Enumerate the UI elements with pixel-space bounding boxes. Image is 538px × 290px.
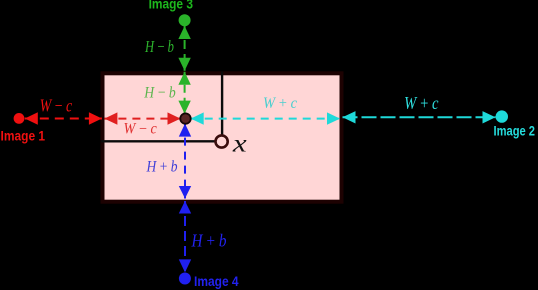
image 3 dot (green) bbox=[179, 14, 191, 26]
image 4 dot (blue) bbox=[179, 273, 191, 285]
arrow blue outer H+b (bottom edge to image 4 dot) bbox=[179, 201, 191, 272]
plate (pink rectangle with dark border) bbox=[103, 73, 342, 201]
svg-text:Image 1: Image 1 bbox=[1, 129, 46, 144]
svg-text:W + c: W + c bbox=[404, 93, 438, 113]
charge dot (center, dark maroon) bbox=[180, 113, 190, 123]
arrow green outer H-b (image 3 dot to top edge) bbox=[178, 26, 190, 71]
coordinate line vertical (from top edge down to point x) bbox=[221, 72, 223, 137]
observation point x (open circle) bbox=[216, 135, 228, 147]
arrow cyan inner W+c (charge to right edge) bbox=[191, 112, 340, 124]
svg-text:H − b: H − b bbox=[143, 85, 175, 102]
image 1 dot (red) bbox=[14, 113, 25, 124]
svg-text:Image 2: Image 2 bbox=[494, 123, 536, 138]
arrow red outer W-c (image 1 dot to left edge) bbox=[25, 112, 102, 124]
arrow blue inner H+b (charge to bottom edge) bbox=[179, 124, 191, 199]
svg-text:H − b: H − b bbox=[144, 37, 174, 56]
coordinate line horizontal (from left edge right to point x) bbox=[101, 140, 216, 142]
arrow cyan outer W+c (right edge to image 2 dot) bbox=[343, 111, 496, 123]
svg-text:Image 3: Image 3 bbox=[149, 0, 194, 12]
arrow red inner W-c (left edge to charge) bbox=[104, 112, 180, 124]
svg-text:W − c: W − c bbox=[124, 121, 157, 138]
svg-text:H + b: H + b bbox=[191, 231, 227, 251]
svg-text:x: x bbox=[232, 130, 247, 157]
svg-text:W − c: W − c bbox=[40, 95, 72, 115]
image 2 dot (cyan) bbox=[496, 110, 508, 122]
svg-text:W + c: W + c bbox=[263, 95, 297, 112]
svg-text:Image 4: Image 4 bbox=[194, 274, 239, 289]
svg-text:H + b: H + b bbox=[146, 159, 178, 176]
arrow green inner H-b (top edge to charge) bbox=[178, 72, 190, 114]
